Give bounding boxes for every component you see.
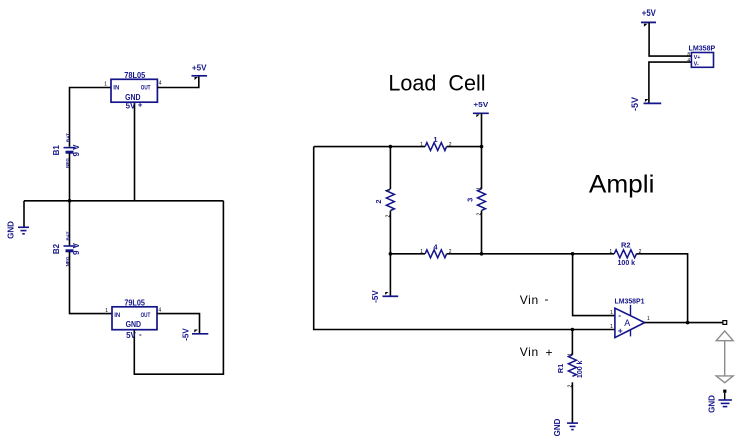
svg-text:1: 1 [477,187,483,190]
junction dot Vin- tap [571,252,575,256]
junction dot Vin+ tap to R1 [571,328,575,332]
wire bridge right leg upper [481,147,483,189]
svg-text:+: + [546,345,553,359]
svg-text:-5V: -5V [371,290,380,303]
svg-text:1: 1 [610,324,613,330]
wire pad to ground [724,393,726,400]
junction dot bridge bottom-left [389,252,393,256]
wire +5V to U4 V+ [649,22,691,56]
output pad square [723,321,727,325]
svg-text:IN: IN [114,313,120,319]
svg-text:+: + [618,325,623,335]
resistor 3 (bridge right leg) [465,187,485,216]
op-amp power block U4 LM358P [687,45,715,67]
wire R2 to feedback corner [636,254,687,323]
svg-text:1: 1 [420,249,423,255]
svg-text:1: 1 [610,310,613,316]
svg-text:B2: B2 [52,243,61,254]
svg-text:A: A [624,318,630,328]
svg-text:+: + [138,101,143,110]
svg-text:-: - [618,310,621,320]
regulator U2 79L05 [105,297,161,339]
ground GND (output) [708,395,732,413]
wire +5V down to bridge top [481,113,483,146]
svg-text:-: - [139,330,142,339]
wire bridge bottom-left to -5V [389,254,391,296]
svg-text:B1: B1 [52,145,61,156]
svg-text:-5V: -5V [182,328,191,341]
regulator U1 78L05 [104,70,162,111]
svg-text:OUT: OUT [141,86,151,92]
wire U1 OUT to +5V [157,76,198,88]
svg-text:1: 1 [104,82,107,88]
svg-text:1: 1 [647,316,650,322]
junction dot bridge top-left [389,145,393,149]
resistor 2 (bridge left leg) [374,189,394,218]
svg-text:1: 1 [433,135,437,144]
svg-text:5V: 5V [126,102,136,111]
svg-text:V-: V- [694,61,699,67]
power -5V (bridge) [371,290,398,303]
wire bridge top rail right [447,146,482,148]
svg-text:Load Cell: Load Cell [388,71,485,96]
power -5V (top right) [630,97,661,111]
svg-text:1: 1 [386,189,392,192]
svg-text:4: 4 [159,81,162,87]
wire main ground rail [24,200,223,202]
svg-text:+5V: +5V [192,64,207,73]
svg-text:-: - [545,292,549,306]
wire U1 GND pin down to ground rail [134,102,136,201]
power +5V (bridge) [473,100,489,117]
ground GND (R1) [553,418,578,436]
wire bridge left leg upper [389,147,391,189]
svg-text:Vin: Vin [520,345,539,359]
wire Vin+ tap down to R1 [571,330,573,355]
connector arrow (gray) [716,331,733,383]
svg-text:V+: V+ [694,55,701,61]
power +5V (left) [192,64,208,81]
battery B2 [52,231,81,266]
resistor R1 [556,353,584,388]
svg-text:Vin: Vin [520,293,539,307]
svg-text:1: 1 [609,249,612,255]
svg-text:GND: GND [126,320,142,329]
wire GND stub left [23,201,25,227]
svg-text:-5V: -5V [630,97,640,111]
svg-text:LM358P1: LM358P1 [615,298,645,305]
svg-text:IN: IN [113,86,119,92]
svg-text:1: 1 [420,142,423,148]
svg-text:100 k: 100 k [577,360,584,378]
power -5V (left) [182,328,209,341]
wire Vin- down and to op-amp inverting input [573,254,615,316]
svg-text:+5V: +5V [642,8,656,18]
svg-text:R2: R2 [621,241,631,250]
resistor 1 (bridge top) [420,135,452,151]
wire battery B1 to battery B2 [69,153,71,246]
svg-text:4: 4 [687,58,690,64]
wire bridge bottom rail [390,253,425,255]
svg-text:8: 8 [687,52,690,58]
output GND pad [723,390,726,393]
svg-text:1: 1 [105,308,108,314]
wire battery B2 to U2 IN [70,251,113,313]
wire op-amp output [645,322,723,324]
svg-text:5V: 5V [126,331,136,340]
wire bridge bottom to R2 [447,253,615,255]
svg-text:GND: GND [7,221,16,239]
wire bridge left rail down and Vin+ run [314,147,615,330]
svg-text:BAT: BAT [66,231,71,240]
svg-text:OUT: OUT [141,313,151,319]
op-amp U3 LM358P1 [610,298,650,337]
wire ground loop right/down/left to U2 GND pin [134,201,223,374]
junction dot bridge top-right [480,145,484,149]
svg-text:79L05: 79L05 [124,297,145,307]
svg-text:3: 3 [465,198,474,202]
svg-text:GND: GND [553,418,562,436]
svg-text:4: 4 [158,308,161,314]
svg-text:1: 1 [568,353,574,356]
wire bridge left leg lower [389,211,391,254]
svg-text:LM358P: LM358P [689,45,716,52]
svg-text:GND: GND [708,395,717,413]
svg-text:R1: R1 [556,364,565,374]
svg-text:2: 2 [449,142,452,148]
junction dot battery chain x main ground wire [68,199,72,203]
svg-text:78L05: 78L05 [124,70,145,80]
svg-text:9 V: 9 V [72,242,81,255]
wire R1 to GND [571,382,573,423]
junction dot feedback to output [686,321,690,325]
wire U4 V- to -5V [649,62,692,103]
svg-text:Ampli: Ampli [589,170,655,198]
svg-text:BAT: BAT [66,133,71,142]
svg-text:9 V: 9 V [72,144,81,157]
wire U1 IN to battery top [70,88,112,147]
svg-text:+5V: +5V [473,100,488,109]
wire U2 OUT to -5V [157,314,200,333]
wire bridge right leg lower [481,211,483,254]
wire bridge top rail [314,146,425,148]
svg-text:100 k: 100 k [618,260,636,267]
ground GND left [7,221,30,239]
battery B1 [52,133,81,168]
resistor 4 (bridge bottom) [420,242,452,257]
svg-text:2: 2 [374,199,383,203]
junction dot bridge bottom-right [480,252,484,256]
resistor R2 [609,241,641,267]
power +5V (top right) [641,8,656,27]
